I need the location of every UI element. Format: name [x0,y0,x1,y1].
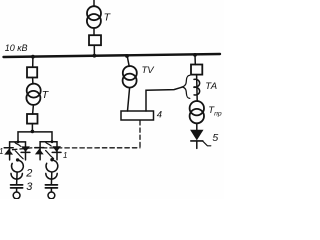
svg-text:4: 4 [157,110,162,121]
thyristor VS1b (down) [21,146,30,152]
svg-text:Тпр: Тпр [208,105,222,118]
breaker Q1 (left branch) [27,67,37,77]
node pair2 bottom [50,158,53,161]
wire TV to box4 [128,88,130,111]
svg-text:Т: Т [104,11,112,23]
wire TA tap to box4 [146,87,182,111]
gate squiggle pair2 lower [46,151,54,159]
node pair2 top [51,140,54,143]
wire [50,188,52,192]
thyristor pair 1 frame [10,142,26,160]
node pair1 bottom [16,158,19,161]
svg-text:5: 5 [212,132,218,144]
node TA branch/bus [193,53,197,57]
wire [196,123,198,129]
wire [50,173,52,185]
wire [32,57,34,67]
wire to split [31,124,33,132]
wire [32,105,35,114]
gate squiggle pair1 upper [15,142,21,146]
capacitor 3b [45,184,57,186]
wire split bar [18,132,52,142]
wire [194,55,196,65]
terminal circle (left leg) [13,192,20,199]
terminal circle (right leg) [48,192,55,199]
dashed control line horizontal [13,148,141,150]
thyristor VS1a (up) [4,148,13,155]
wire [127,56,129,66]
svg-text:Т: Т [42,89,50,101]
gate squiggle pair2 upper [45,142,51,146]
reactor 2a (left leg) [12,160,24,172]
wire TA through [196,75,199,102]
svg-text:3: 3 [26,181,33,193]
dashed control line vertical [139,121,141,149]
node split [31,130,35,134]
reactor cup 2b [46,173,57,179]
brace to control [182,75,189,98]
svg-text:1: 1 [63,151,67,160]
thyristor pair 2 frame [40,142,57,160]
transformer T (top feeder) [87,6,101,20]
reactor 2b (right leg) [46,160,58,172]
gate squiggle pair1 lower [15,151,23,159]
thyristor 5 [190,130,211,149]
svg-text:ТА: ТА [205,81,217,92]
node left branch/bus [31,55,35,59]
wire [93,28,95,35]
reactor cup 2a [11,173,22,179]
thyristor VS2b (down) [52,146,61,152]
wire [32,78,34,85]
control box 4 [121,111,154,120]
breaker (right branch) [191,65,202,75]
transformer T (left branch) [27,84,41,98]
node TV branch/bus [125,54,129,58]
wire [93,45,95,56]
svg-text:2: 2 [25,168,32,180]
breaker Q2 (left branch lower) [27,114,38,124]
svg-text:ТV: ТV [142,65,156,76]
wire top feeder drop [93,0,95,6]
node pair1 top [17,141,20,144]
wire [16,173,19,185]
breaker (top feeder) [89,35,101,45]
wire [16,188,18,192]
thyristor VS2a (up) [35,148,44,155]
bus 10 kV [4,54,221,57]
svg-text:1: 1 [0,147,3,156]
current transformer TA [194,79,200,87]
svg-text:10 кВ: 10 кВ [5,43,28,53]
voltage transformer TV [123,66,137,80]
transformer Tpr [190,101,204,115]
node top feeder/bus [93,54,97,58]
capacitor 3a [11,184,23,186]
